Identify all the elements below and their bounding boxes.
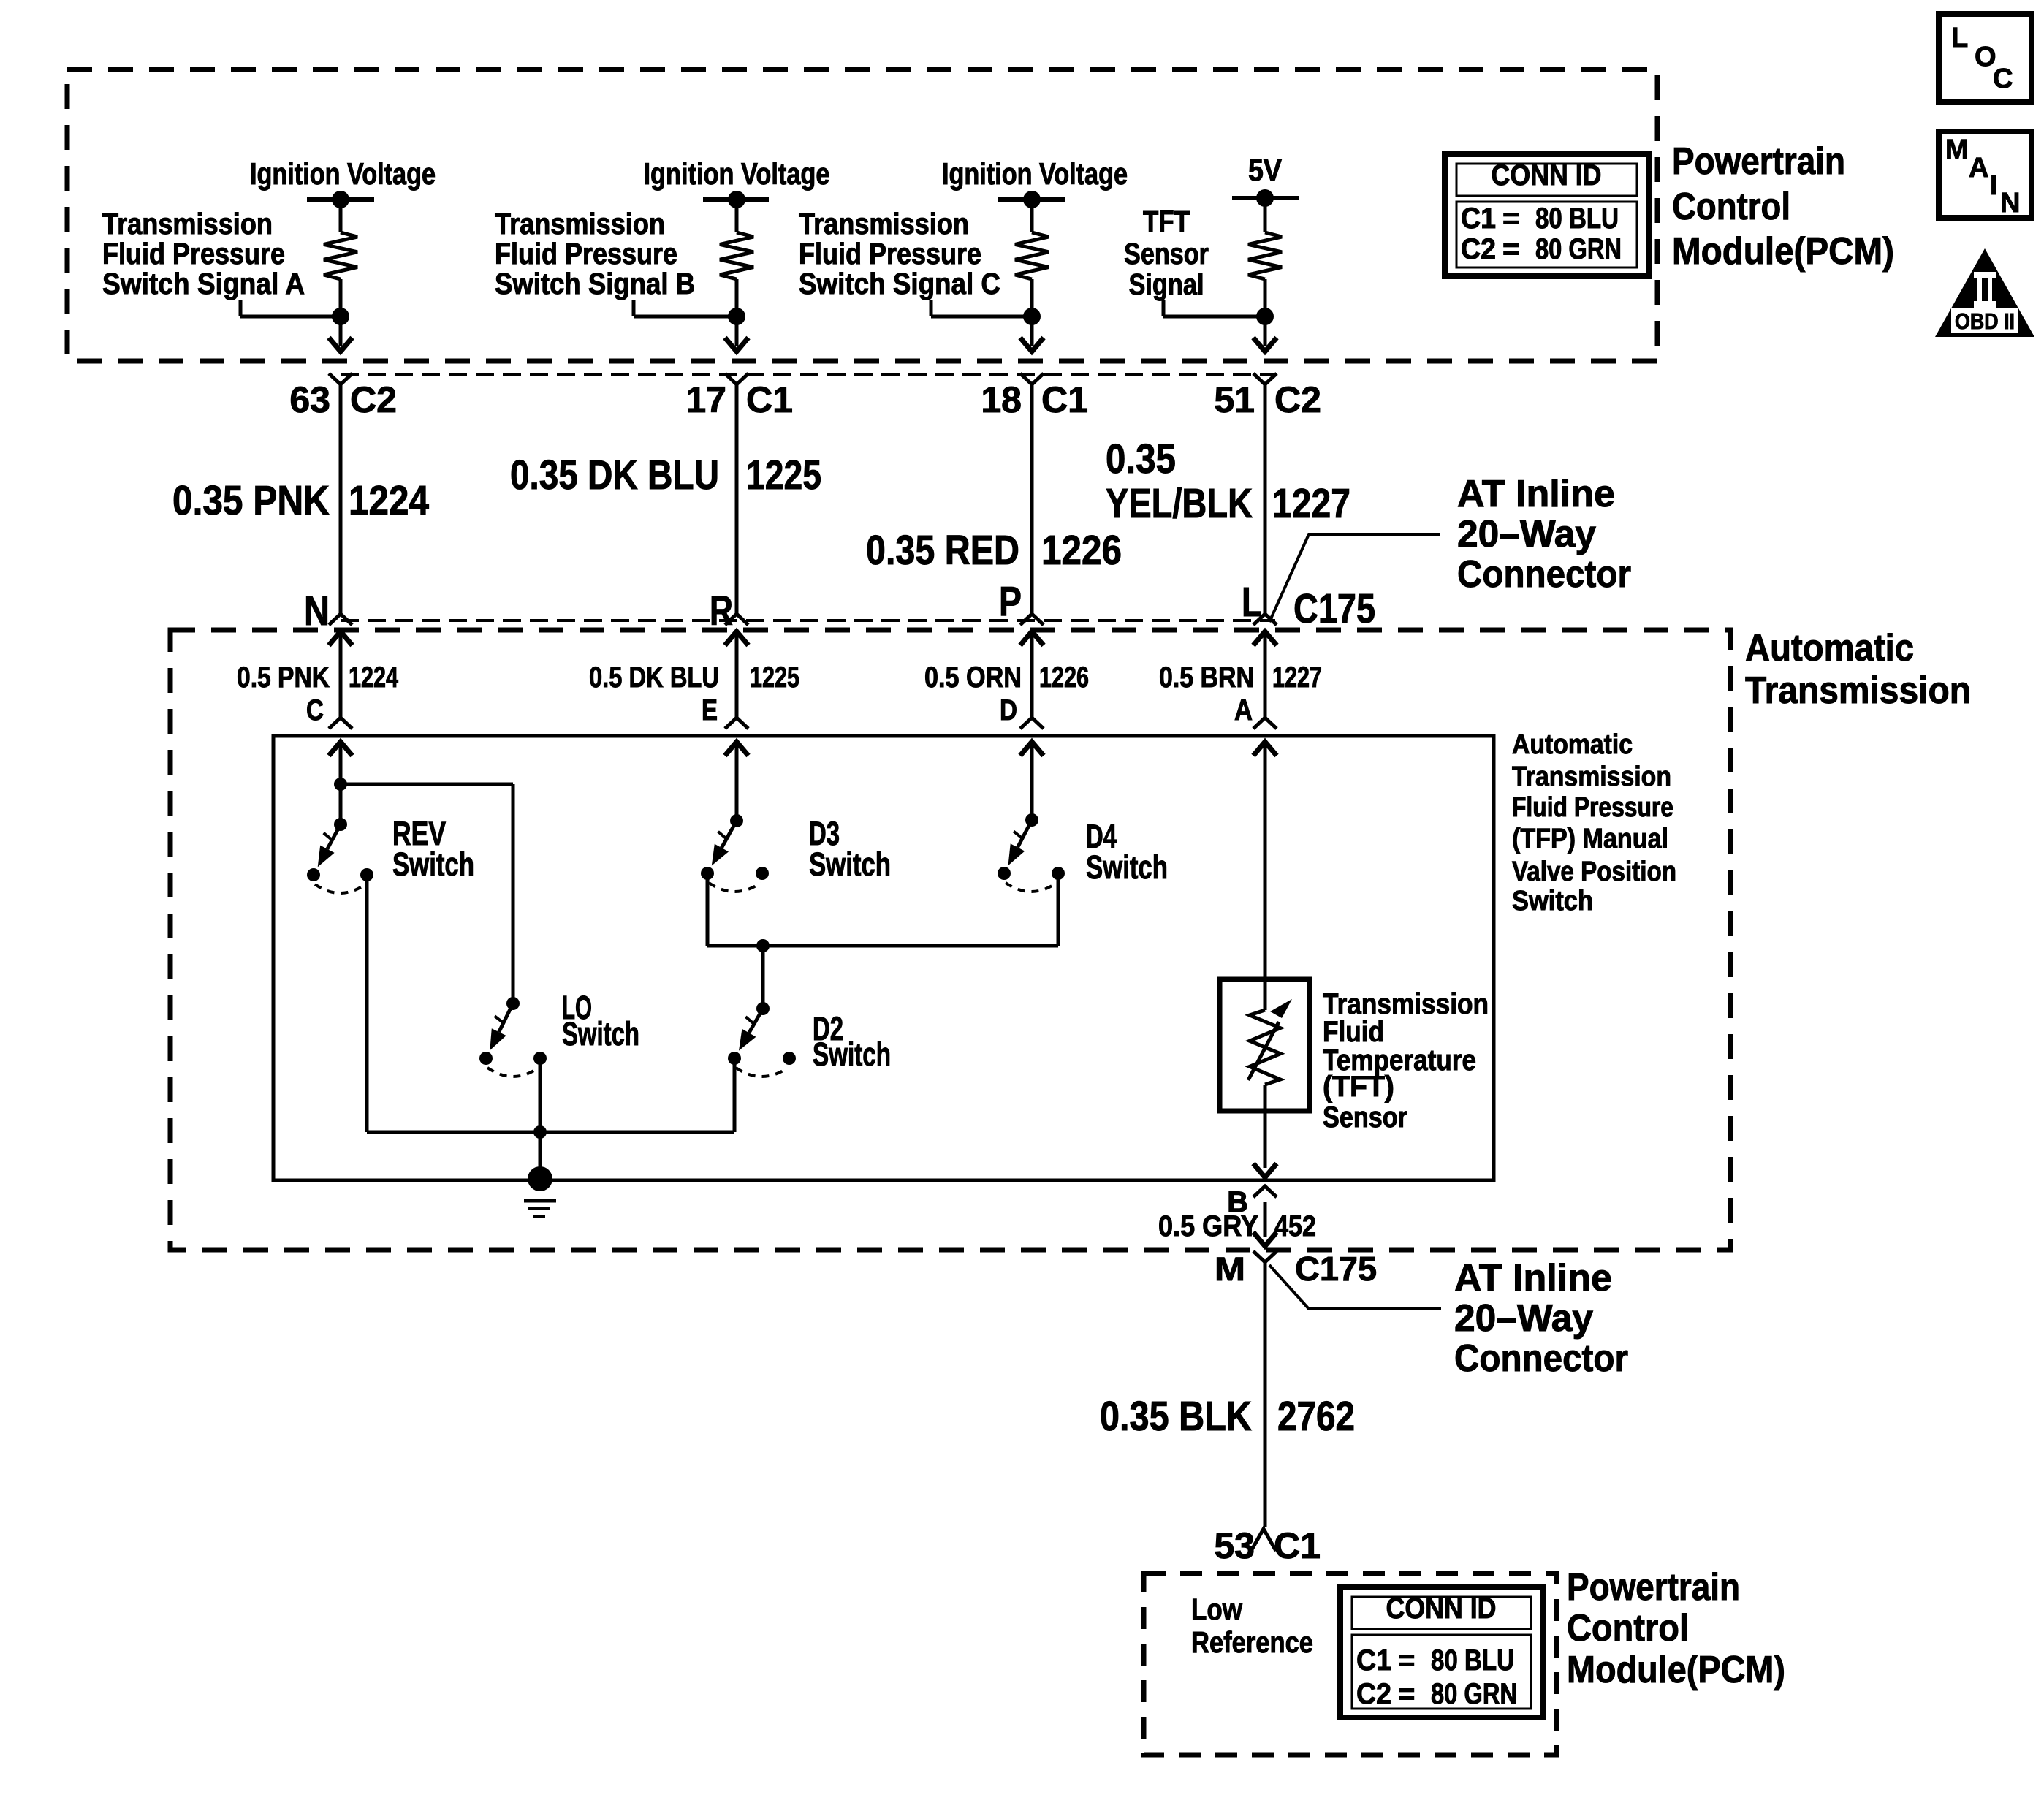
svg-text:Transmission: Transmission <box>1745 669 1971 712</box>
svg-text:C175: C175 <box>1293 585 1375 632</box>
svg-text:0.35 DK BLU: 0.35 DK BLU <box>510 452 719 498</box>
svg-text:Switch Signal B: Switch Signal B <box>495 267 695 300</box>
svg-text:C: C <box>1993 64 2013 94</box>
svg-text:0.5 PNK: 0.5 PNK <box>237 661 330 694</box>
svg-text:Switch Signal C: Switch Signal C <box>799 267 1000 300</box>
svg-text:I: I <box>1990 170 1998 201</box>
svg-text:C2: C2 <box>1274 379 1321 420</box>
svg-text:AT Inline: AT Inline <box>1457 473 1615 515</box>
svg-text:0.35 RED: 0.35 RED <box>866 527 1019 574</box>
svg-text:C1: C1 <box>746 379 793 420</box>
svg-text:TFT: TFT <box>1143 205 1190 238</box>
svg-text:CONN ID: CONN ID <box>1386 1592 1497 1625</box>
svg-text:C1: C1 <box>1041 379 1088 420</box>
svg-text:L: L <box>1242 579 1262 626</box>
svg-text:D: D <box>1000 694 1017 726</box>
svg-text:AT Inline: AT Inline <box>1454 1257 1612 1299</box>
svg-text:Connector: Connector <box>1457 553 1631 596</box>
svg-text:Sensor: Sensor <box>1323 1101 1407 1134</box>
svg-text:C2: C2 <box>1356 1678 1391 1710</box>
svg-text:Control: Control <box>1567 1607 1689 1649</box>
svg-text:Ignition Voltage: Ignition Voltage <box>250 156 436 191</box>
svg-text:YEL/BLK: YEL/BLK <box>1106 480 1253 527</box>
svg-text:Automatic: Automatic <box>1512 729 1633 760</box>
svg-text:Switch: Switch <box>813 1036 891 1073</box>
svg-text:C1: C1 <box>1461 202 1496 235</box>
svg-text:Switch: Switch <box>1086 848 1168 886</box>
svg-text:Switch Signal A: Switch Signal A <box>102 267 305 300</box>
svg-text:Valve Position: Valve Position <box>1512 857 1676 887</box>
svg-text:N: N <box>304 588 330 634</box>
svg-text:18: 18 <box>981 379 1022 420</box>
svg-text:C: C <box>306 694 324 726</box>
svg-text:L: L <box>1951 23 1968 53</box>
svg-text:Fluid: Fluid <box>1323 1016 1384 1048</box>
svg-text:Transmission: Transmission <box>1512 762 1671 792</box>
svg-text:C1: C1 <box>1356 1644 1391 1677</box>
svg-text:80 GRN: 80 GRN <box>1535 233 1622 265</box>
svg-text:Fluid Pressure: Fluid Pressure <box>799 237 981 270</box>
svg-text:Transmission: Transmission <box>799 207 969 240</box>
svg-text:Control: Control <box>1672 186 1790 228</box>
svg-text:M: M <box>1945 134 1969 165</box>
svg-text:1227: 1227 <box>1272 661 1322 694</box>
svg-text:Low: Low <box>1191 1592 1242 1626</box>
svg-text:Switch: Switch <box>1512 886 1593 916</box>
svg-text:Ignition Voltage: Ignition Voltage <box>942 156 1128 191</box>
svg-text:17: 17 <box>685 379 726 420</box>
svg-text:0.35 BLK: 0.35 BLK <box>1100 1393 1252 1440</box>
svg-text:(TFT): (TFT) <box>1323 1071 1394 1103</box>
svg-text:Switch: Switch <box>562 1015 639 1052</box>
svg-text:Ignition Voltage: Ignition Voltage <box>644 156 830 191</box>
svg-text:R: R <box>710 588 733 634</box>
svg-text:0.35: 0.35 <box>1106 436 1176 482</box>
svg-text:Module(PCM): Module(PCM) <box>1567 1649 1785 1691</box>
svg-text:=: = <box>1502 202 1519 235</box>
svg-text:80 GRN: 80 GRN <box>1431 1678 1517 1710</box>
svg-text:C2: C2 <box>1461 233 1496 265</box>
svg-text:53: 53 <box>1214 1525 1255 1566</box>
svg-text:0.5 ORN: 0.5 ORN <box>924 661 1022 694</box>
svg-text:Module(PCM): Module(PCM) <box>1672 230 1894 273</box>
svg-text:1226: 1226 <box>1041 527 1122 574</box>
svg-text:Switch: Switch <box>392 846 474 883</box>
svg-text:1225: 1225 <box>746 452 821 498</box>
svg-text:Transmission: Transmission <box>102 207 273 240</box>
svg-text:20–Way: 20–Way <box>1457 513 1596 555</box>
svg-text:20–Way: 20–Way <box>1454 1297 1593 1340</box>
svg-text:OBD II: OBD II <box>1955 308 2015 334</box>
svg-text:63: 63 <box>289 379 330 420</box>
svg-text:2762: 2762 <box>1277 1393 1355 1440</box>
svg-text:80 BLU: 80 BLU <box>1431 1644 1514 1677</box>
svg-text:Reference: Reference <box>1191 1625 1313 1659</box>
svg-text:A: A <box>1234 694 1253 726</box>
svg-text:80 BLU: 80 BLU <box>1535 202 1619 235</box>
svg-text:Switch: Switch <box>809 846 891 883</box>
svg-text:Powertrain: Powertrain <box>1567 1566 1740 1609</box>
svg-text:N: N <box>2000 188 2020 219</box>
svg-text:M: M <box>1215 1250 1245 1288</box>
svg-text:0.5 BRN: 0.5 BRN <box>1159 661 1254 694</box>
svg-text:Fluid Pressure: Fluid Pressure <box>102 237 285 270</box>
svg-text:E: E <box>702 694 718 726</box>
svg-text:Transmission: Transmission <box>495 207 665 240</box>
svg-text:1227: 1227 <box>1272 480 1350 527</box>
svg-text:Powertrain: Powertrain <box>1672 140 1845 183</box>
svg-text:C1: C1 <box>1274 1525 1321 1566</box>
svg-text:=: = <box>1398 1678 1415 1710</box>
svg-text:Sensor: Sensor <box>1124 237 1209 270</box>
svg-text:=: = <box>1502 233 1519 265</box>
svg-text:1224: 1224 <box>349 477 429 524</box>
svg-text:1226: 1226 <box>1039 661 1089 694</box>
svg-text:(TFP) Manual: (TFP) Manual <box>1512 824 1668 854</box>
svg-text:Signal: Signal <box>1129 267 1204 301</box>
svg-text:=: = <box>1398 1644 1415 1677</box>
svg-text:0.35 PNK: 0.35 PNK <box>172 477 330 524</box>
svg-text:51: 51 <box>1214 379 1255 420</box>
svg-text:P: P <box>999 578 1022 625</box>
svg-text:CONN ID: CONN ID <box>1492 159 1602 191</box>
svg-text:452: 452 <box>1274 1210 1316 1242</box>
svg-text:A: A <box>1969 153 1988 183</box>
svg-text:C2: C2 <box>350 379 397 420</box>
svg-text:Connector: Connector <box>1454 1337 1628 1380</box>
svg-text:C175: C175 <box>1295 1250 1377 1288</box>
svg-text:Automatic: Automatic <box>1745 627 1914 669</box>
svg-text:0.5 GRY: 0.5 GRY <box>1158 1210 1258 1242</box>
svg-text:Fluid Pressure: Fluid Pressure <box>495 237 677 270</box>
svg-text:Fluid Pressure: Fluid Pressure <box>1512 792 1673 823</box>
svg-text:5V: 5V <box>1248 153 1282 187</box>
svg-text:1225: 1225 <box>750 661 799 694</box>
svg-text:0.5 DK BLU: 0.5 DK BLU <box>589 661 719 694</box>
svg-text:1224: 1224 <box>349 661 399 694</box>
